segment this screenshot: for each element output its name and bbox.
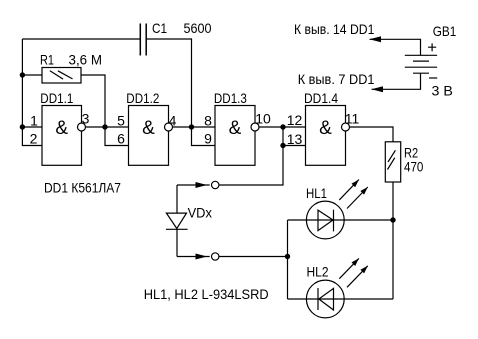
wire left rail from top feedback down to DD1.1 pin 2 (22, 39, 42, 146)
svg-text:HL1: HL1 (306, 185, 327, 201)
junction node R2 / HL1 (390, 217, 395, 222)
inversion bubble DD1.2 pin 4 (165, 123, 173, 131)
svg-text:8: 8 (204, 113, 212, 129)
svg-text:&: & (229, 118, 242, 139)
svg-text:HL2: HL2 (307, 264, 329, 280)
svg-text:VDx: VDx (188, 205, 212, 221)
junction node HL rail / contact (285, 254, 290, 259)
battery minus sign (429, 77, 437, 79)
junction node DD1.3 output (280, 124, 285, 129)
NAND gate DD1.2 body (129, 106, 169, 166)
wire node to VDx top contact (219, 146, 283, 186)
wire battery plus to pin 14 arrow (370, 39, 421, 55)
wire DD1.2 output to DD1.3 pin 8 (173, 126, 216, 128)
wire VDx cathode-anode vertical leads (176, 185, 178, 257)
wire VDx bottom lead with contact arrow (177, 256, 210, 258)
svg-text:HL1, HL2 L-934LSRD: HL1, HL2 L-934LSRD (144, 286, 269, 302)
wire branch to DD1.2 pin 6 (105, 127, 129, 146)
wire DD1.1 output to DD1.2 pin 5 (86, 126, 129, 128)
NAND gate DD1.1 body (42, 106, 82, 166)
svg-text:DD1.1: DD1.1 (40, 90, 73, 106)
svg-text:4: 4 (169, 113, 177, 129)
diode VDx symbol (166, 213, 188, 229)
contact pin arrow top (196, 182, 208, 188)
wire DD1.4 output to R2 (350, 127, 394, 142)
wire HL left rail (287, 220, 289, 299)
svg-text:3 В: 3 В (432, 83, 453, 99)
LED HL1 emission arrows (339, 180, 368, 209)
NAND gate DD1.4 body (306, 106, 346, 166)
junction node DD1.4 pin 13 (280, 143, 285, 148)
svg-text:10: 10 (255, 111, 271, 127)
svg-text:3,6 М: 3,6 М (69, 52, 103, 68)
svg-text:К выв. 14 DD1: К выв. 14 DD1 (294, 21, 375, 37)
svg-text:12: 12 (287, 112, 303, 128)
arrow to pin 7 DD1 (371, 86, 383, 92)
svg-text:&: & (142, 118, 155, 139)
HL1 arrow heads (352, 180, 359, 188)
wire VDx top lead with contact arrow (177, 184, 210, 186)
svg-text:5600: 5600 (184, 20, 212, 36)
LED HL1 symbol (306, 201, 344, 239)
svg-text:1: 1 (30, 113, 38, 129)
wire C1 right to DD1.3 pin 9 (146, 39, 215, 146)
wire bottom contact to HL left rail (219, 256, 288, 258)
svg-text:&: & (55, 118, 68, 139)
svg-text:DD1 К561ЛА7: DD1 К561ЛА7 (44, 180, 121, 196)
inversion bubble DD1.1 pin 3 (78, 123, 86, 131)
svg-text:470: 470 (404, 159, 424, 175)
LED HL2 symbol (306, 280, 344, 318)
resistor R2 body (385, 142, 400, 182)
wire top feedback to C1 (22, 38, 140, 40)
svg-text:2: 2 (30, 131, 38, 147)
svg-text:11: 11 (345, 111, 360, 127)
junction node DD1.1 pin 1 (20, 124, 25, 129)
wire HL1 row (288, 219, 394, 221)
svg-text:6: 6 (117, 131, 125, 147)
wire DD1.3 output to DD1.4 pin 12 (259, 126, 306, 128)
wire R2 bottom to HL rows (392, 182, 394, 299)
LED HL2 emission arrows (339, 258, 368, 287)
HL2 arrow heads (352, 258, 359, 266)
arrow to pin 14 DD1 (369, 36, 381, 42)
svg-text:13: 13 (287, 131, 303, 147)
junction node DD1.2 output / C1 (189, 124, 194, 129)
svg-text:DD1.4: DD1.4 (304, 90, 338, 106)
battery plus sign (428, 43, 436, 51)
junction node DD1.1 output (102, 124, 107, 129)
svg-text:3: 3 (82, 111, 90, 127)
wire battery minus to pin 7 arrow (372, 73, 421, 89)
svg-text:DD1.2: DD1.2 (126, 90, 159, 106)
inversion bubble DD1.4 pin 11 (342, 123, 350, 131)
contact socket top (212, 181, 219, 188)
svg-text:R1: R1 (40, 52, 54, 68)
contact socket bottom (212, 253, 219, 260)
inversion bubble DD1.3 pin 10 (251, 123, 259, 131)
battery GB1 plates (405, 55, 437, 73)
wire R1 left stub (22, 74, 42, 76)
contact pin arrow bottom (196, 254, 208, 260)
svg-text:&: & (319, 118, 332, 139)
NAND gate DD1.3 body (215, 106, 255, 166)
svg-text:GB1: GB1 (433, 23, 457, 39)
svg-text:К выв. 7 DD1: К выв. 7 DD1 (298, 71, 375, 87)
wire HL2 row (288, 298, 394, 300)
svg-text:C1: C1 (152, 20, 167, 36)
wire branch to DD1.4 pin 13 (283, 127, 306, 146)
junction node R1 left (20, 72, 25, 77)
capacitor C1 plates (140, 24, 146, 56)
svg-text:DD1.3: DD1.3 (214, 90, 247, 106)
wire DD1.1 pin 1 stub (22, 126, 42, 128)
wire R1 right to DD1.1 output node (81, 75, 105, 127)
svg-text:9: 9 (204, 131, 212, 147)
svg-text:5: 5 (117, 113, 125, 129)
resistor R1 body (42, 68, 81, 84)
